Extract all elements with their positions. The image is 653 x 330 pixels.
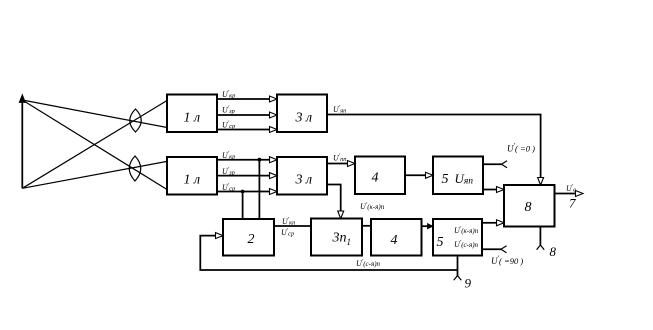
- svg-text:1 л: 1 л: [184, 173, 201, 188]
- fork connector right (top): [502, 161, 508, 168]
- svg-text:4: 4: [391, 233, 398, 248]
- wire Uср row2: [217, 191, 270, 193]
- filled arrowhead into block 5: [428, 224, 434, 229]
- svg-text:5: 5: [442, 172, 449, 187]
- svg-text:7: 7: [569, 196, 576, 211]
- wire from 3л(2) lower output down into 3п1: [327, 185, 341, 212]
- block 4 (row2): [355, 157, 405, 195]
- arrowhead into block 8 upper-left: [497, 187, 505, 193]
- wire down from row2 line1 to block 2: [258, 160, 260, 219]
- block 1л (row1): [167, 95, 217, 133]
- arrowhead down into 3п1: [338, 211, 344, 219]
- arrowhead into 5Uяп: [426, 172, 434, 178]
- wire block8 output: [555, 193, 576, 195]
- arrowhead into 3л(1) line1: [270, 96, 278, 102]
- arrowhead into block 8 lower-left: [497, 220, 505, 226]
- block 4 (bottom row): [371, 219, 422, 256]
- svg-text:8: 8: [525, 200, 532, 215]
- wire Uпп from 3л(2) to block 4: [327, 163, 348, 165]
- object arrow (scene) vertical line: [21, 100, 23, 188]
- wire Uср row1: [217, 129, 270, 131]
- wire Uкр row1: [217, 98, 270, 100]
- block 3л (row1): [277, 95, 327, 133]
- lens L1: [130, 109, 142, 132]
- svg-text:U′(к-я)п: U′(к-я)п: [454, 225, 479, 235]
- wire block2 to 3п1: [274, 225, 311, 227]
- object arrow tip: [19, 95, 25, 103]
- arrowhead into 3л(1) line2: [270, 112, 278, 118]
- svg-text:8: 8: [550, 244, 557, 259]
- arrowhead into 3л(2) line1: [270, 157, 278, 163]
- lens L2: [129, 156, 141, 181]
- svg-text:U′( =90 ): U′( =90 ): [491, 255, 523, 267]
- junction dot on row2 line3: [241, 190, 245, 194]
- block 2: [223, 219, 274, 256]
- block 1л (row2): [167, 157, 217, 195]
- ray R3 top-vertex to lens2 to box 1л(2): [22, 100, 167, 190]
- ray R4 bottom-vertex to lens2 to box 1л(2): [22, 161, 167, 188]
- svg-text:U′( =0 ): U′( =0 ): [507, 142, 535, 154]
- wire 5Uяп lower output into block 8: [483, 189, 497, 191]
- wire block5 bottom to feedback line and connector 9: [457, 256, 459, 276]
- svg-text:U′(с-я)п: U′(с-я)п: [454, 239, 479, 249]
- wire 5Uяп top output to connector: [483, 163, 502, 165]
- fork connector right (bottom): [501, 246, 507, 253]
- ray R2 bottom-vertex to lens1 to box 1л(1): [22, 101, 167, 189]
- wire block4(bottom) to block5 with filled arrow: [422, 225, 429, 227]
- arrowhead into 3л(2) line2: [270, 173, 278, 179]
- wire block8 bottom stub to connector 8: [539, 227, 541, 246]
- arrowhead down into block 8 top: [538, 178, 544, 186]
- ray R1 top-vertex to lens1 to box 1л(1): [22, 100, 167, 128]
- arrowhead into block 4: [348, 161, 356, 167]
- wire Uзр row1: [217, 114, 270, 116]
- svg-text:U′(с-я)п: U′(с-я)п: [356, 258, 381, 268]
- wire 3п1 to block4 (bottom): [362, 225, 371, 227]
- junction dot on row2 line1: [258, 158, 262, 162]
- block 3п1: [311, 219, 362, 256]
- arrowhead into block 2 left: [216, 233, 224, 239]
- wire Uкр row2: [217, 159, 270, 161]
- svg-text:9: 9: [465, 276, 472, 291]
- wire block4 to block 5Uяп: [405, 174, 426, 176]
- wire block5 top output into block 8 lower-left: [482, 222, 497, 224]
- svg-text:4: 4: [372, 171, 379, 186]
- feedback wire to block 2: [200, 236, 457, 270]
- wire Uзр row2: [217, 175, 270, 177]
- fork connector 8 (down): [537, 245, 545, 250]
- svg-text:5: 5: [437, 235, 444, 250]
- block 3л (row2): [277, 157, 327, 195]
- svg-text:3 л: 3 л: [295, 111, 313, 126]
- svg-text:3 л: 3 л: [295, 173, 313, 188]
- arrowhead output 7: [576, 191, 584, 197]
- svg-text:U′(к-я)п: U′(к-я)п: [360, 201, 385, 211]
- block 8: [504, 185, 555, 227]
- arrowhead into 3л(1) line3: [270, 127, 278, 133]
- wire down from row2 line3 to block 2: [242, 192, 244, 220]
- svg-text:2: 2: [248, 232, 255, 247]
- arrowhead into 3л(2) line3: [270, 189, 278, 195]
- wire Uяп from 3л(1) to top of block 8: [327, 115, 541, 178]
- block 5 Uяп: [433, 157, 483, 195]
- wire block5 lower output to connector: [482, 248, 501, 250]
- block 5 (bottom row): [433, 219, 482, 256]
- fork connector 9 (down): [454, 276, 462, 281]
- svg-text:1 л: 1 л: [184, 111, 201, 126]
